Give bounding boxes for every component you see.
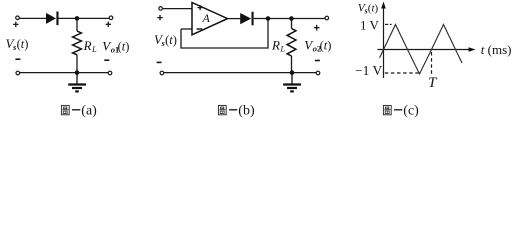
wire node to resistor (a) — [76, 18, 78, 31]
minus sign op-amp input (b) — [197, 28, 203, 30]
x-axis t — [378, 49, 472, 51]
svg-text:−1 V: −1 V — [355, 63, 382, 78]
terminal bottom-left (a) — [16, 71, 20, 75]
dashed line -1V level (c) — [385, 72, 420, 74]
wire op-amp output to diode (b) — [228, 18, 241, 20]
y-axis Vs(t) — [383, 5, 385, 78]
plus sign op-amp input (b) — [198, 5, 203, 10]
wire diode to terminal (b) — [254, 18, 326, 20]
ground (b) — [283, 73, 301, 92]
svg-text:(t): (t) — [320, 39, 332, 53]
resistor RL (a) — [73, 31, 82, 55]
op-amp A (b) — [192, 3, 228, 35]
bottom wire (a) — [20, 72, 108, 74]
wire resistor top stub (b) — [291, 19, 293, 29]
plus sign top-left (a) — [13, 22, 18, 27]
svg-text:(t): (t) — [165, 33, 177, 47]
terminal top-right (a) — [109, 16, 113, 20]
node junction bottom (b) — [290, 70, 295, 75]
svg-text:(c): (c) — [403, 103, 419, 118]
dashed line T vertical (c) — [431, 52, 433, 74]
minus sign bottom-left (a) — [15, 58, 20, 60]
caption 圖一(a) — [61, 103, 97, 118]
diode D2 (b) — [240, 12, 253, 26]
triangle waveform Vs(t) (c) — [380, 25, 462, 75]
node junction bottom (a) — [75, 70, 80, 75]
wire resistor bottom stub (b) — [291, 56, 293, 73]
svg-text:L: L — [91, 44, 97, 54]
caption 圖一(b) — [218, 103, 255, 118]
svg-text:1 V: 1 V — [360, 17, 380, 32]
terminal top-left (b) — [159, 7, 163, 11]
svg-text:(b): (b) — [238, 103, 255, 118]
ground (a) — [68, 73, 86, 92]
minus sign bottom-right (a) — [104, 59, 109, 61]
tick 1V dashes (c) — [385, 23, 392, 25]
caption 圖一(c) — [383, 103, 419, 118]
node feedback tap (b) — [266, 16, 271, 21]
terminal bottom-left (b) — [160, 71, 164, 75]
wire input to op-amp (b) — [163, 8, 192, 10]
plus sign output (b) — [314, 25, 320, 31]
plus sign top-right (a) — [106, 22, 111, 27]
node junction top (a) — [75, 16, 80, 21]
terminal top-right (b) — [325, 16, 329, 20]
svg-text:(t): (t) — [17, 37, 29, 51]
resistor RL (b) — [287, 29, 296, 57]
minus sign input bottom (b) — [157, 61, 162, 63]
terminal top-left (a) — [16, 16, 20, 20]
svg-text:L: L — [279, 44, 285, 54]
svg-text:(t): (t) — [368, 2, 379, 14]
wire inverting input stub (b) — [181, 28, 192, 30]
wire top-left (a) — [19, 17, 46, 19]
terminal bottom-right (b) — [316, 71, 320, 75]
svg-text:R: R — [271, 38, 280, 53]
wire resistor to bottom (a) — [76, 55, 78, 73]
svg-text:t (ms): t (ms) — [481, 42, 512, 57]
svg-text:(t): (t) — [118, 40, 130, 54]
bottom wire (b) — [164, 72, 317, 74]
wire top-right segment (a) — [59, 17, 110, 19]
plus sign input (b) — [157, 15, 162, 20]
feedback wire (b) — [181, 19, 268, 49]
minus sign output bottom (b) — [315, 60, 320, 62]
svg-text:(a): (a) — [81, 103, 97, 118]
terminal bottom-right (a) — [108, 71, 112, 75]
svg-text:R: R — [83, 38, 92, 53]
node resistor top (b) — [289, 16, 294, 21]
diode D1 (a) — [46, 12, 59, 26]
svg-text:A: A — [202, 11, 211, 25]
